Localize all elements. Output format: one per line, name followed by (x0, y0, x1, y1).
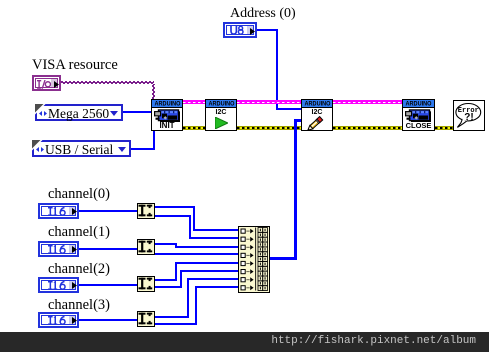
wire split1 high to build array (155, 243, 177, 245)
wire split2 low to build array (155, 286, 182, 288)
node build array (238, 226, 270, 293)
wire Address: U8 to write block (257, 29, 278, 31)
wire split1 low to build array (155, 253, 238, 255)
wire VISA dashed vertical (152, 84, 155, 99)
label Address (0) (230, 6, 296, 22)
wire array thick: build array to write block (270, 257, 297, 260)
wire error I2C-write to CLOSE (333, 126, 402, 130)
control VISA resource I/O terminal (32, 75, 61, 91)
wire channel(0) to split (79, 210, 137, 212)
control channel(2) I16 terminal (38, 277, 79, 293)
wire split3 low to build array (155, 323, 197, 325)
control ring USB / Serial (32, 140, 131, 157)
wire split2 high to build array (155, 279, 177, 281)
label VISA resource (32, 57, 118, 74)
wire channel(1) to split (79, 248, 137, 250)
svg-text:ARDUINO: ARDUINO (304, 100, 330, 106)
control channel(0) I16 terminal (38, 203, 79, 219)
svg-text:ARDUINO: ARDUINO (208, 100, 234, 106)
node split number 2 (137, 276, 155, 292)
wire channel(2) to split (79, 284, 137, 286)
wire VISA dashed horizontal (61, 81, 154, 84)
wire Arduino resource I2C-write to CLOSE (333, 100, 402, 104)
wire USB to INIT bottom (131, 148, 154, 150)
label channel(0) (48, 186, 110, 203)
wire error I2C-read to I2C-write (237, 126, 301, 130)
wire Mega to INIT (123, 111, 151, 113)
block error out (453, 100, 485, 131)
label channel(2) (48, 261, 110, 278)
label channel(1) (48, 224, 110, 241)
svg-text:ARDUINO: ARDUINO (406, 100, 432, 106)
control channel(1) I16 terminal (38, 241, 79, 257)
svg-text:ARDUINO: ARDUINO (154, 100, 180, 106)
control Address U8 terminal (223, 22, 257, 38)
node split number 3 (137, 311, 155, 327)
wire error INIT to I2C-read (183, 126, 205, 130)
control channel(3) I16 terminal (38, 312, 79, 328)
node split number 0 (137, 203, 155, 219)
wire split0 low to build array (155, 215, 191, 217)
wire Arduino resource INIT to I2C-read (183, 100, 205, 104)
svg-text:?!: ?! (464, 112, 473, 123)
control ring Mega 2560 (35, 104, 123, 121)
block Arduino I2C write (301, 99, 333, 131)
wire split0 high to build array (155, 206, 195, 208)
wire split3 high to build array (155, 316, 189, 318)
label channel(3) (48, 297, 110, 314)
wire Arduino resource I2C-read to I2C-write (237, 100, 301, 104)
watermark bar (0, 332, 489, 352)
block Arduino I2C read (205, 99, 237, 131)
wire error CLOSE to error-out (435, 126, 454, 130)
wire channel(3) to split (79, 319, 137, 321)
block Arduino INIT (151, 99, 183, 131)
block Arduino CLOSE (402, 99, 435, 131)
node split number 1 (137, 239, 155, 255)
